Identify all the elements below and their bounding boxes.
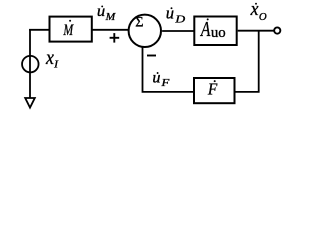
svg-text:A: A	[199, 17, 210, 41]
block A_uo	[194, 17, 236, 46]
svg-text:x: x	[250, 0, 259, 20]
svg-text:M: M	[63, 22, 75, 39]
plus sign at summer input	[110, 33, 120, 43]
svg-text:uo: uo	[211, 25, 226, 41]
source circle x_I	[22, 56, 39, 73]
label u_F (u-dot sub F)	[152, 70, 170, 89]
svg-text:u: u	[166, 3, 174, 22]
wire: input top horizontal to block M	[29, 29, 50, 31]
label x_I	[45, 48, 58, 71]
label x_O (x-dot sub O)	[250, 0, 267, 23]
svg-text:O: O	[259, 11, 267, 23]
svg-text:x: x	[45, 48, 54, 69]
wire: block A to output terminal	[238, 30, 274, 32]
wire: feedback down and left to block F	[236, 31, 259, 92]
svg-text:F: F	[160, 78, 170, 89]
block M	[50, 17, 92, 42]
svg-text:F: F	[207, 80, 218, 99]
minus sign at summer feedback input	[147, 55, 156, 57]
svg-text:I: I	[53, 60, 59, 71]
svg-text:u: u	[152, 70, 160, 87]
svg-text:D: D	[174, 14, 185, 26]
svg-text:M: M	[105, 12, 117, 23]
block F	[194, 78, 235, 103]
wire: input vertical line	[29, 29, 31, 99]
svg-text:u: u	[97, 3, 105, 20]
wire: summer to block A	[162, 30, 194, 32]
ground arrow (open arrowhead down)	[25, 98, 35, 108]
wire: block M to summing junction	[93, 29, 129, 31]
label u_D (u-dot sub D)	[166, 3, 185, 25]
svg-text:Σ: Σ	[135, 15, 143, 31]
wire: block F left and up to summer (minus input)	[143, 48, 194, 92]
summing junction circle with Sigma	[129, 15, 161, 47]
label u_M (u-dot sub M)	[97, 3, 117, 23]
output terminal (open circle)	[274, 27, 280, 33]
